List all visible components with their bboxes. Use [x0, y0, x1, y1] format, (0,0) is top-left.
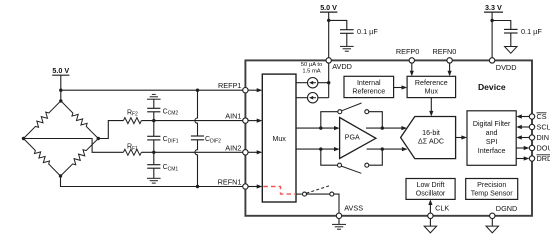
svg-text:SPI: SPI — [486, 138, 497, 146]
svg-text:CS: CS — [537, 112, 547, 121]
svg-text:AIN1: AIN1 — [225, 112, 241, 121]
svg-text:AVSS: AVSS — [344, 204, 363, 213]
svg-text:Low Drift: Low Drift — [417, 181, 445, 189]
svg-text:0.1 µF: 0.1 µF — [357, 27, 378, 36]
svg-text:DIN: DIN — [537, 133, 550, 142]
svg-text:DVDD: DVDD — [496, 63, 517, 72]
svg-text:SCLK: SCLK — [537, 123, 550, 132]
svg-text:3.3 V: 3.3 V — [485, 3, 502, 12]
svg-text:50 µA to: 50 µA to — [301, 62, 322, 68]
svg-text:DGND: DGND — [496, 204, 518, 213]
svg-text:PGA: PGA — [345, 133, 360, 141]
svg-text:Mux: Mux — [425, 88, 439, 96]
svg-text:Reference: Reference — [352, 88, 385, 96]
svg-text:AVDD: AVDD — [332, 62, 352, 71]
svg-text:Temp Sensor: Temp Sensor — [471, 190, 513, 198]
svg-text:DRDY: DRDY — [537, 154, 550, 163]
svg-text:AIN2: AIN2 — [225, 143, 241, 152]
svg-text:REFN0: REFN0 — [432, 47, 456, 56]
svg-text:CLK: CLK — [435, 204, 449, 213]
svg-text:Digital Filter: Digital Filter — [473, 120, 511, 128]
svg-text:5.0 V: 5.0 V — [52, 66, 69, 75]
svg-text:0.1 µF: 0.1 µF — [521, 27, 542, 36]
svg-text:Device: Device — [478, 82, 506, 92]
svg-text:DOUT: DOUT — [537, 144, 550, 153]
svg-text:Internal: Internal — [357, 79, 381, 87]
svg-text:REFN1: REFN1 — [218, 178, 242, 187]
svg-text:Precision: Precision — [477, 181, 506, 189]
svg-text:5.0 V: 5.0 V — [320, 3, 337, 12]
svg-text:and: and — [486, 129, 498, 137]
svg-text:16-bit: 16-bit — [422, 129, 440, 137]
svg-text:REFP1: REFP1 — [218, 81, 242, 90]
svg-text:REFP0: REFP0 — [396, 47, 420, 56]
svg-text:1.5 mA: 1.5 mA — [302, 69, 320, 75]
svg-text:Oscillator: Oscillator — [416, 190, 446, 198]
svg-text:ΔΣ ADC: ΔΣ ADC — [418, 138, 444, 146]
svg-text:Interface: Interface — [478, 147, 506, 155]
svg-text:Reference: Reference — [415, 79, 448, 87]
svg-text:Mux: Mux — [272, 135, 286, 143]
